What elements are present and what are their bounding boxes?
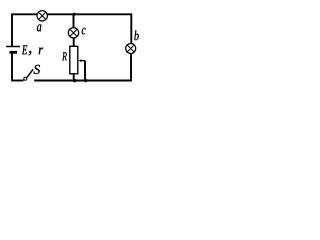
lamp a (bulb: circle with X) xyxy=(37,11,47,21)
wire slider to bottom xyxy=(84,61,86,81)
wire bottom xyxy=(34,80,131,82)
label "E, r" (emf and internal resistance) xyxy=(22,45,43,55)
wire bottom left xyxy=(11,80,23,82)
wire left lower xyxy=(11,54,13,81)
wire left upper xyxy=(11,13,13,46)
node top junction xyxy=(73,13,76,16)
label "b" xyxy=(134,31,138,41)
label "S" xyxy=(34,65,40,74)
switch S (open knife switch: pivot circle + lever) xyxy=(24,69,33,80)
battery E,r (cell: long positive plate + short thick negative plate) xyxy=(6,47,20,53)
wire right upper xyxy=(130,13,132,44)
label "R" xyxy=(62,52,67,60)
resistor R (rheostat body: rectangle) xyxy=(70,46,78,74)
wire top xyxy=(12,13,131,15)
label "c" xyxy=(82,28,86,35)
lamp c (bulb: circle with X) xyxy=(68,28,78,38)
rheostat sliding-contact arrow (points left into resistor R) xyxy=(79,59,85,62)
wire right lower xyxy=(130,53,132,81)
wire middle lower xyxy=(73,38,75,47)
lamp b (bulb: circle with X) xyxy=(126,44,136,54)
wire resistor to bottom xyxy=(73,74,75,81)
node bottom junction 2 xyxy=(84,79,87,82)
wire middle upper xyxy=(73,14,75,28)
label "a" xyxy=(37,24,41,31)
node bottom junction 1 xyxy=(73,79,76,82)
